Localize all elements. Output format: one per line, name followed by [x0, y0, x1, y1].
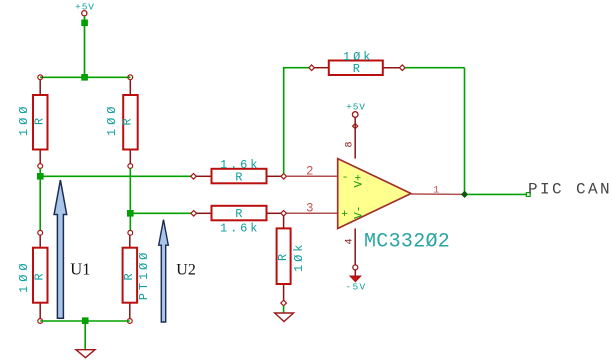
svg-text:V-: V- — [354, 206, 366, 219]
node pin circle R3 bottom — [38, 319, 43, 324]
node pin circle R4 bottom — [127, 319, 132, 324]
svg-text:MC332Ø2: MC332Ø2 — [364, 230, 450, 253]
wire feedback left horizontal — [283, 67, 309, 69]
node pin circle R4 top — [128, 230, 133, 235]
voltage arrow U1 — [54, 180, 67, 318]
node diamond V+ — [353, 124, 358, 129]
wire +5V vertical — [84, 16, 86, 77]
resistor R1 (100) top-left — [17, 80, 47, 164]
op-amp U3 MC33202 — [338, 159, 411, 229]
svg-text:R: R — [276, 254, 290, 261]
wire op-amp V+ pin — [354, 117, 356, 158]
node pin circle R1 bottom — [38, 164, 43, 169]
junction output node — [462, 192, 468, 198]
wire feedback right horizontal — [405, 67, 464, 69]
svg-text:PIC CAN: PIC CAN — [528, 180, 612, 198]
node pin circle R3 top — [38, 230, 43, 235]
resistor R3 (100) bottom-left — [17, 235, 47, 318]
wire op-amp output — [411, 193, 462, 195]
node diamond R8 right — [400, 65, 406, 71]
svg-text:R: R — [235, 170, 242, 184]
wire bridge top horizontal — [40, 76, 131, 78]
junction node right bridge tap — [127, 210, 134, 217]
svg-text:1ØØ: 1ØØ — [17, 102, 31, 136]
svg-text:R: R — [33, 273, 47, 280]
net end square PIC CAN — [526, 193, 530, 197]
wire op-amp V- pin — [354, 229, 356, 266]
svg-text:4: 4 — [344, 238, 355, 244]
wire feedback left vertical — [283, 68, 285, 174]
wire right tap horizontal to 1.6k — [130, 212, 191, 214]
node diamond R5 right / feedback tap — [281, 174, 287, 180]
svg-text:PT1ØØ: PT1ØØ — [137, 250, 151, 301]
svg-text:U2: U2 — [176, 261, 196, 278]
wire bridge bottom horizontal — [40, 320, 130, 322]
wire op-amp inverting input — [287, 175, 338, 177]
wire feedback right vertical — [464, 68, 466, 195]
node diamond R8 left — [309, 65, 315, 71]
svg-text:R: R — [33, 118, 47, 125]
resistor R2 (100) top-right — [105, 80, 138, 164]
svg-text:+5V: +5V — [346, 102, 366, 113]
supply +5v pin circle — [352, 112, 358, 118]
svg-text:R: R — [235, 207, 242, 221]
node diamond R6 left — [191, 211, 197, 217]
svg-text:8: 8 — [344, 141, 355, 147]
ground symbol bridge — [76, 350, 95, 358]
wire left tap vertical down — [39, 168, 41, 230]
svg-text:1ØØ: 1ØØ — [17, 259, 31, 293]
voltage arrow U2 — [159, 220, 169, 322]
svg-text:1ØØ: 1ØØ — [105, 102, 119, 136]
supply -5v pin circle — [353, 265, 358, 270]
svg-text:1Øk: 1Øk — [292, 242, 306, 272]
svg-text:R: R — [353, 62, 360, 76]
wire -5v stub — [354, 270, 356, 276]
resistor R4 (PT100) bottom-right — [122, 235, 151, 318]
wire right bridge vertical — [129, 168, 131, 230]
junction bridge bottom — [82, 317, 89, 324]
wire R7 to ground — [283, 306, 285, 313]
junction node left bridge tap — [37, 173, 44, 180]
node pin circle R2 bottom — [128, 164, 133, 169]
resistor R5 (1.6k) upper — [196, 158, 281, 185]
svg-text:1.6k: 1.6k — [220, 222, 260, 236]
svg-text:-: - — [342, 172, 349, 184]
junction bridge top — [81, 74, 88, 81]
resistor R8 (10k) feedback — [314, 50, 399, 76]
node diamond R5 left — [191, 174, 197, 180]
svg-text:3: 3 — [306, 202, 314, 216]
supply +5V pin circle — [82, 11, 87, 16]
wire left tap horizontal to 1.6k — [40, 175, 191, 177]
wire output to PIC CAN — [468, 193, 526, 195]
node diamond R6 right / R7 tap — [281, 211, 287, 217]
svg-text:R: R — [121, 118, 135, 125]
svg-text:U1: U1 — [70, 259, 90, 278]
node pin circle R1 top — [38, 75, 43, 80]
svg-text:1: 1 — [433, 185, 439, 196]
svg-text:2: 2 — [306, 164, 314, 178]
svg-text:-5V: -5V — [345, 281, 366, 292]
resistor R6 (1.6k) lower — [197, 206, 282, 236]
svg-text:V+: V+ — [354, 174, 366, 187]
ground symbol R7 — [275, 313, 294, 322]
supply -5v arrow symbol — [350, 276, 361, 282]
wire op-amp non-inverting input — [286, 212, 337, 214]
svg-text:R: R — [122, 273, 136, 280]
svg-text:+: + — [341, 209, 348, 221]
wire to ground — [84, 324, 86, 350]
junction at +5V symbol — [81, 20, 88, 27]
node diamond R7 bottom — [281, 300, 287, 306]
node pin circle R2 top — [128, 75, 133, 80]
resistor R7 (10k) to ground — [276, 216, 306, 300]
